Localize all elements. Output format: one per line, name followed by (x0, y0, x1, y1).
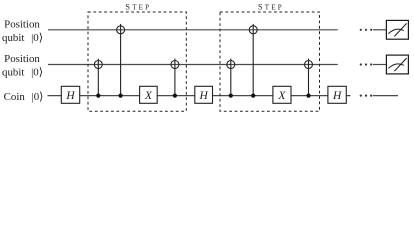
svg-text:H: H (332, 90, 342, 102)
svg-text:Coin |0⟩: Coin |0⟩ (4, 91, 44, 103)
svg-text:STEP: STEP (125, 3, 151, 12)
svg-text:X: X (144, 90, 153, 102)
svg-text:X: X (277, 90, 286, 102)
svg-text:qubit |0⟩: qubit |0⟩ (2, 67, 43, 79)
svg-text:H: H (65, 90, 75, 102)
svg-text:STEP: STEP (258, 3, 284, 12)
svg-text:Position: Position (4, 19, 40, 31)
svg-text:H: H (198, 90, 208, 102)
svg-text:Position: Position (4, 53, 40, 65)
svg-text:qubit |0⟩: qubit |0⟩ (2, 32, 43, 44)
